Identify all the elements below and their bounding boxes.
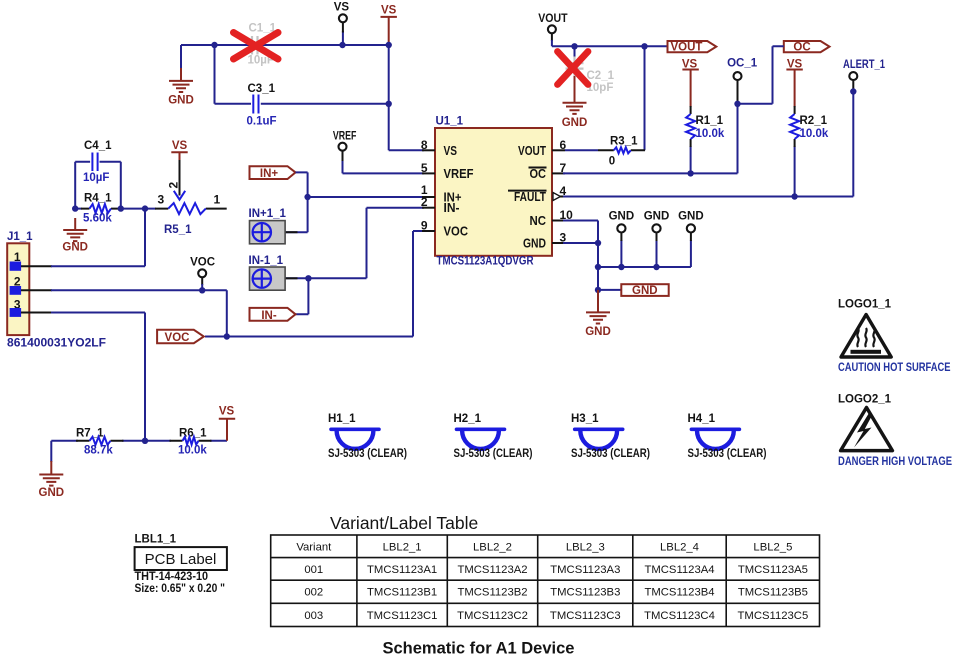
svg-text:TMCS1123B1: TMCS1123B1 (367, 587, 437, 599)
svg-text:IN+: IN+ (260, 168, 279, 180)
node: ALERT_1 terminal (843, 59, 885, 80)
svg-text:TMCS1123C5: TMCS1123C5 (738, 610, 809, 622)
svg-text:GND: GND (644, 211, 670, 223)
no-populate cross C2 (558, 52, 589, 85)
svg-text:VS: VS (444, 144, 458, 158)
svg-text:OC: OC (530, 167, 547, 181)
resistor R6 (178, 428, 207, 457)
node: GND terminal 1 (609, 211, 635, 233)
capacitor C4 (83, 140, 112, 184)
junction (687, 170, 693, 176)
node: VOUT port flag (668, 41, 717, 54)
svg-text:Size: 0.65" x 0.20 ": Size: 0.65" x 0.20 " (135, 583, 226, 595)
junction (595, 287, 601, 293)
svg-text:GND: GND (678, 211, 704, 223)
table: variant/label table grid (271, 535, 820, 627)
svg-text:TMCS1123B2: TMCS1123B2 (457, 587, 527, 599)
svg-text:0: 0 (609, 155, 615, 167)
pin 1 IN+ (421, 183, 462, 205)
svg-text:GND: GND (632, 285, 658, 297)
node: IN- port flag (250, 308, 296, 322)
svg-text:TMCS1123C3: TMCS1123C3 (550, 610, 621, 622)
svg-text:VS: VS (381, 5, 397, 17)
svg-text:3: 3 (158, 193, 165, 207)
node: IN+ port flag (250, 166, 296, 180)
svg-text:R1_1: R1_1 (696, 115, 724, 127)
no-populate cross C1 (234, 33, 279, 60)
svg-text:TMCS1123C4: TMCS1123C4 (644, 610, 715, 622)
svg-text:H4_1: H4_1 (688, 413, 716, 425)
node: VS power flag at R5 (171, 140, 187, 161)
svg-text:VOC: VOC (444, 225, 469, 239)
svg-text:TMCS1123A1: TMCS1123A1 (367, 564, 437, 576)
hardware H4 (688, 413, 767, 460)
svg-text:TMCS1123C2: TMCS1123C2 (457, 610, 528, 622)
svg-text:OC: OC (793, 42, 810, 54)
svg-text:THT-14-423-10: THT-14-423-10 (135, 571, 209, 583)
junction (199, 287, 205, 293)
svg-text:0.1uF: 0.1uF (247, 116, 277, 128)
test point TP IN-1 (249, 255, 286, 290)
svg-text:88.7k: 88.7k (84, 445, 113, 457)
ground (39, 461, 65, 499)
table: row 003 (304, 610, 808, 622)
svg-text:1: 1 (214, 193, 221, 207)
svg-text:10.0k: 10.0k (178, 445, 207, 457)
junction (211, 42, 217, 48)
node: GND net label (621, 284, 668, 297)
svg-text:VOC: VOC (190, 257, 215, 269)
svg-text:H2_1: H2_1 (454, 413, 482, 425)
junction (653, 264, 659, 270)
wire: IN- net (285, 208, 424, 315)
junction (571, 43, 577, 49)
table: row 001 (304, 564, 808, 576)
junction (641, 43, 647, 49)
node: VS power flag (381, 5, 397, 46)
svg-text:PCB Label: PCB Label (145, 551, 217, 568)
svg-text:LBL2_3: LBL2_3 (566, 542, 605, 554)
svg-text:VOUT: VOUT (518, 144, 546, 158)
resistor R7 (76, 428, 113, 457)
svg-text:SJ-5303 (CLEAR): SJ-5303 (CLEAR) (571, 448, 650, 460)
svg-text:Schematic for A1 Device: Schematic for A1 Device (383, 640, 575, 658)
capacitor C1 (DNP) (248, 23, 277, 67)
svg-text:TMCS1123B5: TMCS1123B5 (738, 587, 808, 599)
ground (562, 76, 588, 129)
svg-text:VOC: VOC (165, 332, 190, 344)
svg-text:VOUT: VOUT (671, 42, 703, 54)
svg-text:GND: GND (523, 237, 546, 251)
junction (142, 205, 148, 211)
node: VOC port flag (157, 330, 204, 344)
svg-text:C4_1: C4_1 (84, 140, 112, 152)
node: OC port flag (784, 41, 830, 54)
wire: C4/R4 node (75, 162, 156, 209)
table: row 002 (304, 587, 808, 599)
svg-text:10.0k: 10.0k (696, 128, 725, 140)
svg-text:LBL2_5: LBL2_5 (753, 542, 792, 554)
svg-text:LBL1_1: LBL1_1 (135, 534, 177, 546)
logo LOGO2 danger high voltage (838, 394, 952, 469)
junction (850, 88, 856, 94)
test point TP IN+1 (249, 208, 287, 244)
svg-text:002: 002 (304, 587, 323, 599)
svg-text:CAUTION HOT SURFACE: CAUTION HOT SURFACE (838, 362, 951, 374)
junction (791, 193, 797, 199)
wire: GND net under U1 (563, 221, 691, 290)
svg-text:VOUT: VOUT (538, 13, 567, 25)
svg-text:GND: GND (168, 95, 194, 107)
table: header row (296, 542, 792, 554)
junction (224, 333, 230, 339)
svg-text:IN+1_1: IN+1_1 (249, 208, 287, 220)
junction (304, 194, 310, 200)
svg-text:R2_1: R2_1 (800, 115, 828, 127)
junction (339, 42, 345, 48)
ground (62, 218, 88, 254)
svg-text:TMCS1123C1: TMCS1123C1 (367, 610, 438, 622)
junction (386, 42, 392, 48)
connector J1 (7, 231, 106, 350)
junction (118, 205, 124, 211)
pin 3 GND (523, 231, 567, 251)
svg-text:IN-: IN- (444, 201, 460, 215)
pin 6 VOUT (518, 138, 567, 158)
svg-text:TMCS1123A5: TMCS1123A5 (738, 564, 808, 576)
svg-text:ALERT_1: ALERT_1 (843, 59, 885, 71)
wire: J1 pin2 / VOC (51, 231, 424, 337)
hardware H3 (571, 413, 650, 460)
table: variant/label table title (330, 513, 478, 533)
svg-text:NC: NC (530, 214, 547, 228)
wire: R7/R6 divider (51, 441, 227, 462)
svg-text:C3_1: C3_1 (248, 83, 276, 95)
pin 2 IN- (421, 195, 460, 215)
resistor R1 (686, 114, 725, 173)
svg-text:TMCS1123A1QDVGR: TMCS1123A1QDVGR (437, 256, 535, 268)
caption (383, 640, 575, 658)
node: VREF terminal (333, 131, 357, 151)
junction (305, 275, 311, 281)
svg-text:DANGER HIGH VOLTAGE: DANGER HIGH VOLTAGE (838, 456, 952, 468)
logo LOGO1 caution hot surface (838, 299, 951, 375)
svg-text:TMCS1123B4: TMCS1123B4 (644, 587, 714, 599)
svg-text:VREF: VREF (444, 167, 474, 181)
svg-text:LBL2_1: LBL2_1 (383, 542, 422, 554)
node: VOC terminal (190, 257, 215, 278)
ground (585, 290, 611, 338)
svg-text:GND: GND (609, 211, 635, 223)
svg-text:TMCS1123A4: TMCS1123A4 (644, 564, 714, 576)
svg-text:U1_1: U1_1 (436, 116, 464, 128)
svg-text:Variant: Variant (296, 542, 332, 554)
junction (386, 101, 392, 107)
pin 4 FAULT (508, 184, 567, 204)
node: VS power flag at R6 (219, 406, 235, 441)
svg-text:TMCS1123A3: TMCS1123A3 (550, 564, 620, 576)
svg-text:LBL2_4: LBL2_4 (660, 542, 699, 554)
node: VS power flag at R1 (682, 58, 699, 114)
svg-text:5.60k: 5.60k (83, 213, 112, 225)
node: VS terminal (334, 2, 350, 23)
svg-text:R4_1: R4_1 (84, 193, 112, 205)
svg-text:TMCS1123B3: TMCS1123B3 (550, 587, 620, 599)
junction (142, 438, 148, 444)
hardware H2 (454, 413, 533, 460)
svg-text:FAULT: FAULT (514, 190, 546, 204)
svg-text:001: 001 (304, 564, 323, 576)
node: GND terminal 3 (678, 211, 704, 233)
svg-text:VS: VS (172, 140, 188, 152)
svg-text:10.0k: 10.0k (800, 128, 829, 140)
resistor R2 (790, 114, 829, 197)
svg-text:10µF: 10µF (83, 172, 109, 184)
svg-text:Variant/Label Table: Variant/Label Table (330, 513, 478, 533)
ground (168, 68, 194, 107)
pin 7 OC (529, 161, 567, 181)
svg-text:LOGO1_1: LOGO1_1 (838, 299, 892, 311)
svg-text:2: 2 (421, 195, 428, 209)
wire: FAULT/ALERT net (563, 81, 853, 197)
svg-text:GND: GND (585, 326, 611, 338)
label LBL1 PCB label (135, 534, 227, 595)
wire: top VS rail (181, 23, 424, 151)
svg-text:LBL2_2: LBL2_2 (473, 542, 512, 554)
svg-text:GND: GND (562, 117, 588, 129)
svg-text:R5_1: R5_1 (164, 224, 192, 236)
wire: J1 pin1 to R4 node (51, 209, 145, 267)
svg-text:9: 9 (421, 219, 428, 233)
svg-text:861400031YO2LF: 861400031YO2LF (7, 338, 106, 350)
svg-text:SJ-5303 (CLEAR): SJ-5303 (CLEAR) (328, 448, 407, 460)
wire: J1 pin3 down (51, 313, 145, 441)
svg-text:SJ-5303 (CLEAR): SJ-5303 (CLEAR) (454, 448, 533, 460)
svg-text:H1_1: H1_1 (328, 413, 356, 425)
op-amp U1 (TMCS1123A1QDVGR) (435, 116, 552, 268)
svg-text:TMCS1123A2: TMCS1123A2 (457, 564, 527, 576)
wire: VOUT net (552, 34, 668, 151)
svg-text:003: 003 (304, 610, 323, 622)
junction (734, 101, 740, 107)
capacitor C2 (DNP) (566, 57, 615, 95)
svg-text:GND: GND (39, 487, 65, 499)
svg-text:C2_1: C2_1 (587, 70, 615, 82)
svg-text:IN-: IN- (261, 310, 277, 322)
wire: IN+ net (285, 172, 424, 232)
potentiometer R5 (155, 160, 227, 236)
junction (595, 264, 601, 270)
junction (595, 240, 601, 246)
node: VOUT terminal (538, 13, 567, 33)
svg-text:VS: VS (334, 2, 350, 14)
svg-text:8: 8 (421, 138, 428, 152)
junction (72, 205, 78, 211)
svg-text:LOGO2_1: LOGO2_1 (838, 394, 892, 406)
svg-text:H3_1: H3_1 (571, 413, 599, 425)
svg-text:GND: GND (62, 242, 88, 254)
node: GND terminal 2 (644, 211, 670, 233)
svg-text:R3_1: R3_1 (610, 136, 638, 148)
pin 5 VREF (421, 161, 474, 181)
resistor R3 (609, 136, 638, 168)
svg-text:IN-1_1: IN-1_1 (249, 255, 284, 267)
node: VS power flag at R2 (786, 58, 802, 114)
svg-text:SJ-5303 (CLEAR): SJ-5303 (CLEAR) (688, 448, 767, 460)
pin 9 VOC (421, 219, 468, 239)
svg-text:VS: VS (219, 406, 235, 418)
svg-text:5: 5 (421, 161, 428, 175)
wire: VREF net (343, 151, 425, 174)
pin 8 VS (421, 138, 457, 158)
svg-text:J1_1: J1_1 (7, 231, 33, 243)
svg-text:2: 2 (166, 182, 180, 189)
junction (618, 264, 624, 270)
hardware H1 (328, 413, 407, 460)
wire: OC net (563, 46, 784, 173)
pin 10 NC (530, 208, 574, 228)
capacitor C3 (247, 83, 277, 128)
node: OC_1 terminal (727, 58, 758, 81)
svg-text:VREF: VREF (333, 131, 357, 143)
resistor R4 (83, 193, 112, 225)
svg-text:OC_1: OC_1 (727, 58, 758, 70)
